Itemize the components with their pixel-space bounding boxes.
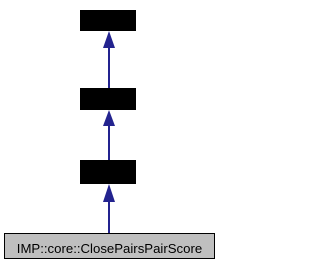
inheritance arrow 3 shaft (108, 200, 110, 233)
inheritance arrow 3 head (103, 184, 115, 202)
node: parent class (black box) (80, 160, 136, 184)
node: current class IMP::core::ClosePairsPairScore (grey box) (4, 233, 215, 259)
inheritance arrow 1 head (103, 31, 115, 48)
inheritance arrow 1 shaft (108, 46, 110, 88)
inheritance arrow 2 head (103, 110, 115, 126)
node: middle ancestor class (black box) (80, 88, 136, 110)
inheritance arrow 2 shaft (108, 124, 110, 160)
node: top ancestor class (black box) (80, 10, 136, 31)
